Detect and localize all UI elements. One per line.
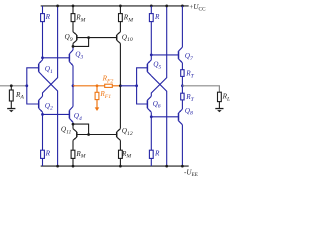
label R_M bottom-right	[121, 150, 131, 160]
node rail / Q7 collector	[181, 5, 184, 8]
label R_T bottom	[185, 93, 194, 103]
node rail / R top-right	[150, 5, 153, 8]
wire Q8 base	[151, 116, 178, 118]
svg-text:R: R	[45, 13, 51, 21]
node rail / Q8 collector	[181, 165, 184, 168]
label Q4	[74, 112, 82, 122]
wire Q1 node to Q3 base	[43, 57, 70, 59]
wire R bottom-left lead	[42, 158, 44, 166]
label Q3	[75, 51, 83, 61]
svg-text:R: R	[154, 149, 160, 157]
transistor Q11	[73, 129, 77, 141]
node Q11 base loop	[87, 133, 90, 136]
transistor Q8	[179, 109, 183, 125]
wire R_F1 lead bottom with arrow	[95, 100, 100, 111]
wire Q11 base-collector loop	[73, 124, 89, 134]
ground under R_L	[215, 108, 223, 112]
resistor R_M top-right	[119, 14, 123, 22]
wire Q3 emitter to node	[72, 66, 74, 86]
svg-text:R: R	[45, 150, 51, 158]
wire Q6 emitter to R bottom-right	[150, 112, 152, 150]
node rail / R_M top-left	[72, 5, 75, 8]
wire R_M top-left leads	[72, 6, 74, 32]
label R_F1	[99, 90, 111, 100]
node input / R_A junction	[10, 84, 13, 87]
label R bottom-left	[45, 150, 51, 158]
wire X-right +rail to Q6 collector	[151, 6, 166, 96]
wire R_T bottom to Q8	[181, 100, 183, 109]
label Q2	[45, 102, 53, 112]
label R top-left	[45, 13, 51, 21]
transistor Q5	[147, 60, 151, 76]
label -UEE	[184, 168, 198, 178]
wire R top-left leads	[42, 6, 44, 60]
label R_F2	[102, 74, 114, 84]
wire Q11 emitter to R_M	[72, 140, 74, 150]
label Q7	[185, 52, 194, 62]
label Q9	[65, 33, 73, 43]
resistor R_T bottom	[181, 93, 184, 100]
node input / base junction	[25, 84, 28, 87]
resistor R_L	[218, 92, 222, 101]
node rail / R_M top-right	[119, 5, 122, 8]
label Q1	[45, 65, 53, 75]
wire feedback node right	[112, 85, 120, 87]
resistor R_T top	[181, 70, 184, 77]
node gain node	[119, 84, 122, 87]
resistor R_M top-left	[71, 14, 75, 22]
wire Q11-Q12 base line	[77, 134, 117, 136]
wire R_A lead bottom	[10, 101, 12, 108]
wire Q4 emitter to node	[72, 86, 74, 107]
resistor R top-right	[149, 14, 153, 22]
node Q9 base loop	[87, 36, 90, 39]
wire Q3 collector	[72, 46, 74, 50]
node output	[181, 84, 184, 87]
resistor R bottom-left	[41, 150, 45, 158]
svg-text:R: R	[154, 13, 160, 21]
label Q6	[153, 100, 161, 110]
wire R_M bottom-left lead	[72, 158, 74, 166]
wire +UCC rail	[41, 5, 189, 7]
node R_F1 tap	[96, 84, 99, 87]
label R_M top-right	[123, 13, 133, 23]
node Q6 emitter / Q8 base	[150, 115, 153, 118]
transistor Q2	[39, 96, 43, 112]
resistor R_F2	[105, 84, 113, 87]
wire Q12 emitter to R_M	[119, 140, 121, 150]
label Q10	[122, 33, 133, 43]
ground under R_A	[7, 108, 15, 112]
transistor Q12	[117, 129, 121, 141]
wire Q9 base-collector loop	[73, 38, 89, 47]
label R bottom-right	[154, 149, 160, 157]
label R_T top	[185, 69, 194, 79]
wire input	[0, 85, 27, 87]
wire Q5-Q6 base bracket	[137, 68, 148, 104]
node Q1 collector / R junction	[41, 56, 44, 59]
node rail / R_M bottom-left	[72, 165, 75, 168]
transistor Q1	[39, 60, 43, 76]
label +UCC	[189, 3, 206, 13]
label R_A	[15, 91, 24, 101]
wire X-left +rail to Q2 collector	[43, 6, 58, 96]
wire R_F1 lead top	[96, 86, 98, 93]
node rail / R_M bottom-right	[119, 165, 122, 168]
wire R_A lead top	[10, 86, 12, 90]
wire Q7 emitter to R_T	[181, 63, 183, 70]
wire Q2 emitter to R bottom-left	[42, 112, 44, 150]
node X-right bottom rail	[165, 165, 168, 168]
wire Q1 base	[27, 68, 39, 104]
wire Q11 collector	[72, 124, 74, 129]
label R_M bottom-left	[75, 150, 85, 160]
label R_L	[222, 93, 231, 103]
wire gain node to driver bases	[120, 85, 136, 87]
node input buffer output	[72, 84, 75, 87]
wire R bottom-right lead	[150, 158, 152, 166]
label Q12	[122, 127, 133, 137]
label R top-right	[154, 13, 160, 21]
label Q8	[185, 107, 193, 117]
resistor R top-left	[41, 14, 45, 22]
node Q2 emitter	[41, 113, 44, 116]
wire Q8 collector to -rail	[181, 125, 183, 166]
wire Q4 base	[43, 113, 70, 115]
transistor Q4	[69, 107, 73, 123]
resistor R_F1	[95, 92, 99, 99]
wire R top-right leads	[150, 6, 152, 60]
transistor Q9	[73, 32, 77, 44]
node X-left top rail	[56, 5, 59, 8]
node driver base tap	[135, 84, 138, 87]
wire output to R_L	[182, 86, 219, 92]
wire Q5 node to Q7 base	[151, 54, 178, 56]
transistor Q6	[147, 96, 151, 112]
node Q11 collector	[72, 123, 75, 126]
wire Q4 collector	[72, 122, 74, 124]
resistor R_M bottom-left	[71, 150, 75, 158]
label Q11	[61, 126, 72, 136]
resistor R bottom-right	[149, 150, 153, 158]
wire Q7 collector	[181, 6, 183, 47]
transistor Q7	[179, 47, 183, 63]
label R_M top-left	[75, 13, 85, 23]
wire R_L lead bottom	[218, 102, 220, 109]
resistor R_M bottom-right	[119, 150, 123, 158]
transistor Q3	[69, 50, 73, 66]
wire Q10 collector to gain node	[119, 43, 121, 128]
wire Q9-Q10 base line	[77, 37, 117, 39]
node X-left bottom rail	[56, 165, 59, 168]
node Q9 collector	[72, 45, 75, 48]
wire R_T top to output	[181, 76, 183, 93]
label Q5	[153, 61, 161, 71]
node Q5 emitter / Q7 base	[150, 54, 153, 57]
wire R_M bottom-right lead	[119, 158, 121, 166]
wire X-left Q1 emitter to -rail	[43, 76, 58, 166]
transistor Q10	[117, 32, 121, 44]
node X-right top rail	[165, 5, 168, 8]
wire R_M top-right leads	[119, 6, 121, 32]
resistor R_A	[9, 90, 13, 101]
wire X-right Q5 collector to -rail	[151, 76, 166, 166]
wire Q9 collector	[72, 43, 74, 46]
wire feedback node left	[73, 85, 105, 87]
wire -UEE rail	[41, 165, 189, 167]
